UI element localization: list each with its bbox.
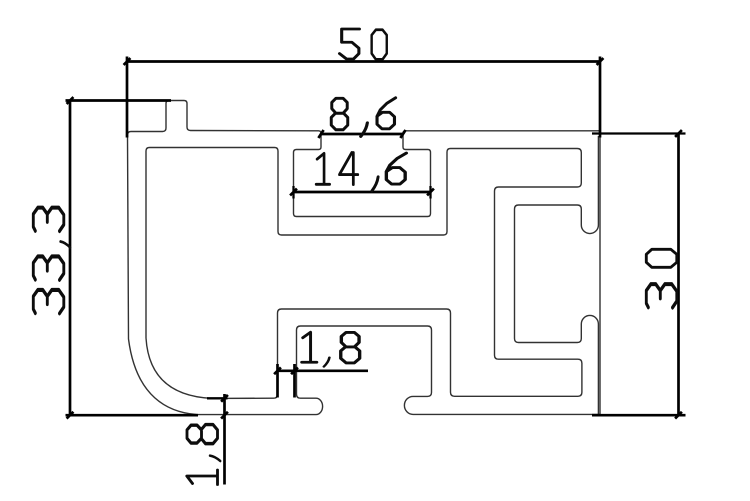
dimension 30: bottom extension line (592, 414, 686, 417)
dimension 33,3: top tick (67, 97, 74, 104)
dimension 1,8 middle: right extension line (293, 364, 296, 398)
dimension 1,8 middle: right tick (291, 367, 298, 374)
dimension 1,8 middle: left extension line (276, 364, 279, 398)
dimension 8,6: left tick (318, 130, 323, 138)
profile inner contour (main cavity) (146, 148, 582, 399)
dimension 50: line (127, 60, 600, 63)
dimension 33,3: bottom tick (67, 412, 74, 419)
dimension 50: right tick (597, 58, 604, 65)
dimension 1,8 middle: line (278, 369, 369, 372)
dimension 14,6: left extension stub (292, 186, 294, 199)
dimension 30: bottom tick (675, 412, 682, 419)
text 30 rotated (646, 249, 677, 307)
profile outer contour (128, 101, 601, 415)
dimension 30: line (677, 134, 680, 416)
right T-slot inner wall with hooks (515, 136, 599, 414)
dimension 1,8 bottom: top extension stub (207, 397, 228, 399)
dimension 33,3: line (69, 101, 72, 416)
text 50 (340, 29, 387, 59)
text 1,8 middle (302, 332, 360, 366)
dimension 8,6: line (321, 133, 403, 136)
dimension 1,8 bottom: top tick (221, 395, 228, 402)
dimension 8,6: right tick (400, 130, 405, 138)
dimension 14,6: right extension stub (429, 186, 431, 199)
text 1,8 bottom rotated (187, 425, 221, 485)
text 33,3 rotated (33, 208, 70, 314)
dimension 1,8 bottom: bottom tick (221, 412, 228, 419)
dimension 14,6: right tick (427, 189, 434, 196)
dimension 33,3: top extension line (66, 99, 172, 102)
text 14,6 (316, 153, 406, 191)
dimension 50: right extension line (599, 57, 602, 138)
dimension 50: left tick (124, 58, 131, 65)
dimension 50: left extension line (126, 57, 129, 138)
dimension 1,8 bottom: line (223, 394, 226, 485)
dimension 33,3: bottom extension line (66, 414, 199, 417)
dimension 14,6: line (294, 191, 431, 194)
text 8,6 (331, 98, 395, 137)
dimension 30: top extension line (592, 132, 686, 134)
dimension 30: top tick (675, 130, 682, 137)
dimension 1,8 middle: left tick (274, 367, 281, 374)
dimension 14,6: left tick (290, 189, 297, 196)
